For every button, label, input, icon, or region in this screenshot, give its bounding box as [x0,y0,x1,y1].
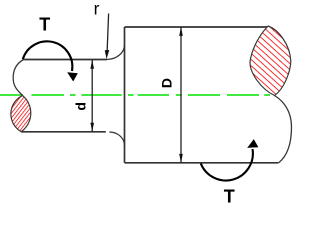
fillet bottom [109,132,124,146]
wire right break tail [275,96,292,164]
svg-text:T: T [224,187,235,206]
leader r line [107,14,109,53]
dimension d line [91,60,93,132]
dimension D line [180,27,182,163]
wire large shaft top edge [125,26,269,28]
left section lens (hatched) [11,96,31,132]
dimension D arrow top [179,27,183,36]
leader r arrow [105,50,110,59]
svg-text:D: D [159,78,175,88]
wire large shaft left face [124,27,126,163]
torque arrowhead top-left [67,72,78,81]
wire large shaft bottom edge [125,162,279,164]
dimension d arrow top [90,60,94,69]
fillet top (radius r) [107,45,125,60]
wire small shaft top edge [24,59,108,61]
svg-text:r: r [94,0,100,19]
torque arrowhead bottom-right [247,139,258,148]
right section lens (hatched) [250,26,291,96]
dimension D arrow bottom [179,154,183,163]
torque arc top-left [23,41,73,71]
torque arc bottom-right [201,149,253,180]
svg-text:d: d [73,102,89,111]
centerline (green dash-dot) [0,94,270,96]
wire small shaft bottom edge [21,131,106,133]
dimension d arrow bottom [90,123,94,132]
svg-text:T: T [39,14,50,34]
wire left break curve [13,60,23,96]
